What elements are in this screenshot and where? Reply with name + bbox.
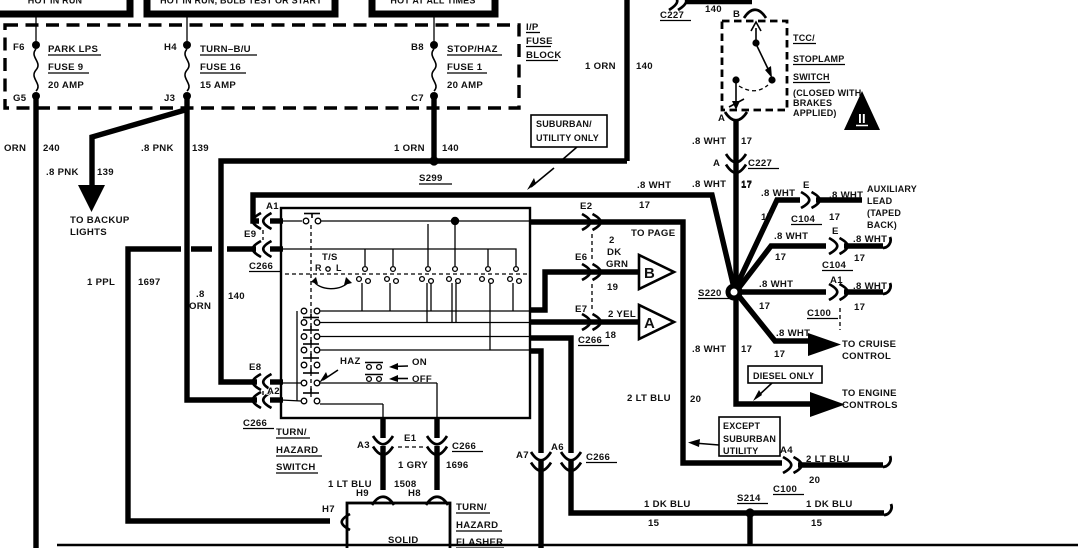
wire .8 WHT down to engine controls <box>736 297 810 404</box>
wire S214 drop <box>747 513 752 544</box>
svg-text:PARK LPS: PARK LPS <box>48 44 98 55</box>
svg-text:H7: H7 <box>322 504 335 515</box>
svg-text:1 PPL: 1 PPL <box>87 277 115 288</box>
svg-text:.8 PNK: .8 PNK <box>46 167 79 178</box>
svg-text:15: 15 <box>648 518 660 529</box>
svg-text:UTILITY ONLY: UTILITY ONLY <box>536 133 599 143</box>
svg-text:ON: ON <box>412 357 427 368</box>
wire stub into fuse B8 <box>433 14 435 42</box>
connector C100 upper <box>807 275 848 330</box>
svg-text:17: 17 <box>775 252 786 263</box>
svg-text:FUSE 9: FUSE 9 <box>48 62 83 73</box>
svg-text:LIGHTS: LIGHTS <box>70 227 107 238</box>
switch contact top <box>303 214 321 224</box>
svg-text:1697: 1697 <box>138 277 161 288</box>
HAZ label and arrow <box>319 356 361 383</box>
TCC switch travel dashed arc <box>739 85 768 91</box>
svg-text:C266: C266 <box>578 335 602 346</box>
S214 wire end hook <box>884 504 892 515</box>
svg-text:C104: C104 <box>791 214 815 225</box>
wire 1 ORN 140 from C7 to S299 <box>431 96 436 161</box>
svg-text:A: A <box>713 158 720 169</box>
svg-text:ORN: ORN <box>4 143 26 154</box>
svg-text:.8 WHT: .8 WHT <box>637 180 671 191</box>
svg-text:E8: E8 <box>249 362 262 373</box>
hazard off position icon <box>365 375 383 382</box>
svg-text:1696: 1696 <box>446 460 469 471</box>
T/S rotary label <box>315 252 342 273</box>
wire .8 PNK 139 from J3 down to A2 <box>187 96 257 400</box>
turn/hazard switch label <box>276 427 322 473</box>
wire E7 2 YEL <box>530 319 638 324</box>
TCC switch internal arrow up <box>751 22 761 42</box>
svg-text:SWITCH: SWITCH <box>276 462 316 473</box>
connector C104 lower <box>822 226 853 271</box>
svg-text:140: 140 <box>705 4 722 15</box>
svg-text:II: II <box>858 111 866 126</box>
svg-text:E: E <box>832 226 839 237</box>
connector E2 <box>580 201 601 230</box>
svg-text:B: B <box>733 9 740 20</box>
SUBURBAN/UTILITY ONLY note box <box>531 115 607 147</box>
dashed link E2-E6 <box>591 234 593 261</box>
power feed box 1 (cut off at top) <box>0 0 130 14</box>
turn/hazard flasher box <box>347 503 450 548</box>
linkage dashed vertical <box>310 225 312 397</box>
wire branch to backup lights <box>92 110 185 188</box>
hazard on position icon <box>365 363 383 370</box>
svg-text:HOT IN RUN: HOT IN RUN <box>28 0 83 6</box>
svg-text:.8 WHT: .8 WHT <box>692 344 726 355</box>
svg-text:(TAPED: (TAPED <box>867 208 901 218</box>
diesel only note box <box>748 366 822 383</box>
svg-text:F6: F6 <box>13 42 25 53</box>
wire ORN 240 from G5 down <box>33 96 38 548</box>
svg-text:UTILITY: UTILITY <box>723 446 758 456</box>
svg-text:FLASHER: FLASHER <box>456 537 503 548</box>
svg-text:TURN/: TURN/ <box>456 502 487 513</box>
svg-text:.8 WHT: .8 WHT <box>692 136 726 147</box>
svg-text:SUBURBAN/: SUBURBAN/ <box>536 119 592 129</box>
svg-text:I/P: I/P <box>526 22 539 33</box>
svg-text:15: 15 <box>811 518 823 529</box>
contact row 5 <box>301 362 320 373</box>
TCC switch label <box>793 33 861 118</box>
svg-text:A6: A6 <box>551 442 564 453</box>
svg-text:17: 17 <box>774 349 785 360</box>
TCC switch internal arrow down <box>729 83 744 110</box>
svg-text:H9: H9 <box>356 488 369 499</box>
connector A6 <box>551 442 581 471</box>
svg-text:17: 17 <box>741 344 752 355</box>
dashed link E6-E7 <box>591 284 593 311</box>
svg-text:.8 WHT: .8 WHT <box>776 328 810 339</box>
splice S220 <box>698 286 740 299</box>
svg-text:1 DK BLU: 1 DK BLU <box>806 499 853 510</box>
svg-text:FUSE 1: FUSE 1 <box>447 62 483 73</box>
svg-text:BLOCK: BLOCK <box>526 50 562 61</box>
wire A6 to S214 (1 DK BLU) <box>530 338 571 453</box>
connector A7 <box>516 450 617 471</box>
svg-text:17: 17 <box>829 212 840 223</box>
leader arrow to .8 WHT wire <box>527 168 554 190</box>
svg-text:(CLOSED WITH: (CLOSED WITH <box>793 88 861 98</box>
svg-text:A3: A3 <box>357 440 370 451</box>
turn/hazard switch box <box>281 208 530 418</box>
wire .8 WHT branch 2 <box>738 246 826 289</box>
svg-text:C266: C266 <box>243 418 267 429</box>
connector E1 dashes <box>398 433 424 447</box>
wire .8 WHT to auxiliary lead <box>736 200 800 287</box>
terminal H7 <box>322 504 350 530</box>
svg-text:1 ORN: 1 ORN <box>394 143 425 154</box>
svg-text:AUXILIARY: AUXILIARY <box>867 184 917 194</box>
svg-text:19: 19 <box>607 282 618 293</box>
svg-text:1 GRY: 1 GRY <box>398 460 428 471</box>
contact cluster 5 <box>480 249 494 350</box>
dashed link A1-E9 <box>262 230 264 240</box>
svg-text:E: E <box>803 180 810 191</box>
svg-text:1 ORN: 1 ORN <box>585 61 616 72</box>
fuse 16 TURN-B/U 15A <box>164 41 257 104</box>
svg-text:20 AMP: 20 AMP <box>447 80 483 91</box>
svg-text:E1: E1 <box>404 433 417 444</box>
svg-text:J3: J3 <box>164 93 175 104</box>
wire 2 LT BLU to right <box>798 462 883 467</box>
wire E2 to A4 (2 LT BLU) <box>530 222 782 463</box>
svg-text:DIESEL ONLY: DIESEL ONLY <box>753 371 814 381</box>
svg-text:SWITCH: SWITCH <box>793 72 830 82</box>
leader arrow from diesel only box <box>753 383 772 401</box>
svg-text:C100: C100 <box>773 484 797 495</box>
contact row 4 <box>301 347 320 358</box>
wire .8 WHT 17 from TCC to S220 <box>733 121 738 286</box>
svg-text:240: 240 <box>43 143 60 154</box>
TCC/stoplamp switch dashed box <box>722 21 787 110</box>
contact row 6 hazard feed <box>281 380 437 419</box>
svg-text:.8: .8 <box>196 289 205 300</box>
contact row 1 <box>301 308 320 317</box>
svg-text:A2: A2 <box>267 386 280 397</box>
TCC switch contact dot upper <box>752 39 759 46</box>
svg-text:E9: E9 <box>244 229 256 240</box>
contact cluster 1 <box>357 249 371 311</box>
wire A7 down <box>530 351 541 453</box>
svg-text:HAZ: HAZ <box>340 356 361 367</box>
left contact column rail <box>296 311 298 401</box>
svg-text:20: 20 <box>690 394 701 405</box>
svg-text:FUSE 16: FUSE 16 <box>200 62 241 73</box>
svg-text:L: L <box>336 263 342 273</box>
junction node <box>451 217 459 225</box>
svg-text:SUBURBAN: SUBURBAN <box>723 434 776 444</box>
svg-text:B8: B8 <box>411 42 424 53</box>
svg-text:TURN–B/U: TURN–B/U <box>200 44 251 55</box>
svg-text:140: 140 <box>636 61 653 72</box>
power feed box 2 (cut off at top) <box>147 0 335 14</box>
wire .8 WHT from A1 along top to S220 <box>253 195 734 288</box>
wire E6 2 DK GRN <box>530 272 638 310</box>
connector C227 lower <box>713 154 779 173</box>
wire 1 PPL 1697 from E9 to H7 <box>128 249 330 521</box>
connector E9 at C266 <box>244 229 283 272</box>
connector C104 upper <box>791 180 822 225</box>
svg-text:TO BACKUP: TO BACKUP <box>70 215 130 226</box>
turn/hazard flasher label <box>456 502 504 548</box>
svg-text:H8: H8 <box>408 488 421 499</box>
svg-text:HAZARD: HAZARD <box>276 445 318 456</box>
svg-text:E7: E7 <box>575 304 587 315</box>
svg-text:17: 17 <box>759 301 770 312</box>
svg-text:DK: DK <box>607 247 621 258</box>
connector E7 <box>575 304 609 346</box>
svg-text:2 YEL: 2 YEL <box>608 309 636 320</box>
connector C266 on E1 wire <box>427 436 483 455</box>
warning triangle symbol <box>844 91 880 130</box>
terminal H9 <box>356 488 394 505</box>
wire S299 bus and drop to E8 <box>221 161 627 382</box>
svg-text:20 AMP: 20 AMP <box>48 80 84 91</box>
svg-text:C266: C266 <box>249 261 273 272</box>
terminal H8 <box>408 488 448 505</box>
except suburban utility note box <box>719 417 780 456</box>
terminal B <box>733 9 766 20</box>
contact row 2 <box>301 320 320 330</box>
svg-text:CONTROL: CONTROL <box>842 351 891 362</box>
svg-text:CONTROLS: CONTROLS <box>842 400 898 411</box>
I/P fuse block label <box>526 22 562 61</box>
svg-text:C104: C104 <box>822 260 846 271</box>
svg-text:TCC/: TCC/ <box>793 33 815 43</box>
internal bus wires to right edge <box>320 311 530 350</box>
svg-text:TURN/: TURN/ <box>276 427 307 438</box>
page divider line <box>57 544 1078 546</box>
svg-text:A4: A4 <box>780 445 793 456</box>
svg-text:TO ENGINE: TO ENGINE <box>842 388 897 399</box>
wire .8 WHT to cruise control <box>738 295 808 341</box>
svg-text:EXCEPT: EXCEPT <box>723 421 761 431</box>
svg-text:.8 WHT: .8 WHT <box>853 234 887 245</box>
svg-text:C266: C266 <box>452 441 476 452</box>
connector C227 top <box>660 0 691 21</box>
contact row 3 <box>301 334 320 344</box>
svg-text:BRAKES: BRAKES <box>793 98 832 108</box>
wire at top to TCC switch <box>686 0 752 4</box>
dashed link E8-A2 <box>262 391 264 398</box>
wire .8 WHT branch 3 <box>741 289 826 294</box>
svg-text:S214: S214 <box>737 493 761 504</box>
leader from note box to S299 wire <box>562 147 577 160</box>
svg-text:APPLIED): APPLIED) <box>793 108 837 118</box>
svg-text:17: 17 <box>741 136 752 147</box>
wire stub into fuse H4 <box>186 14 188 42</box>
off-page triangle B <box>639 255 674 289</box>
svg-text:17: 17 <box>741 180 752 191</box>
power feed box 3 (cut off at top) <box>372 0 495 14</box>
I/P fuse block dashed box <box>5 25 519 108</box>
svg-text:C266: C266 <box>586 452 610 463</box>
off-page triangle A <box>639 305 674 339</box>
contact cluster 3 <box>420 224 434 322</box>
svg-text:S220: S220 <box>698 288 722 299</box>
internal wire E9 line <box>281 249 516 267</box>
svg-text:17: 17 <box>854 253 865 264</box>
connector C100 lower A4 <box>773 445 804 495</box>
connector E8 at C266 <box>249 362 283 390</box>
connector A3 <box>357 436 393 455</box>
svg-text:A1: A1 <box>266 201 279 212</box>
svg-text:2 LT BLU: 2 LT BLU <box>806 454 850 465</box>
svg-text:TO PAGE: TO PAGE <box>631 228 676 239</box>
connector A1 at C266 <box>253 201 283 229</box>
svg-text:.8 WHT: .8 WHT <box>761 188 795 199</box>
T/S direction arc arrow <box>311 277 352 289</box>
svg-text:C227: C227 <box>748 158 772 169</box>
terminal A <box>718 112 747 124</box>
svg-text:C227: C227 <box>660 10 684 21</box>
svg-text:C100: C100 <box>807 308 831 319</box>
svg-text:.8 WHT: .8 WHT <box>853 281 887 292</box>
svg-text:E2: E2 <box>580 201 592 212</box>
connector E6 <box>575 252 601 280</box>
svg-text:OFF: OFF <box>412 374 432 385</box>
svg-text:15 AMP: 15 AMP <box>200 80 236 91</box>
linkage dashed horizontal <box>285 273 527 275</box>
svg-text:.8 WHT: .8 WHT <box>829 190 863 201</box>
svg-text:R: R <box>315 263 322 273</box>
ON label arrow <box>389 357 427 370</box>
wire E1 1 GRY 1696 <box>434 419 439 438</box>
svg-text:HOT IN RUN, BULB TEST OR START: HOT IN RUN, BULB TEST OR START <box>160 0 322 6</box>
svg-text:1 DK BLU: 1 DK BLU <box>644 499 691 510</box>
svg-text:A: A <box>718 113 725 124</box>
svg-text:FUSE: FUSE <box>526 36 553 47</box>
svg-text:17: 17 <box>854 302 865 313</box>
wire stub into fuse F6 <box>35 14 37 42</box>
svg-text:S299: S299 <box>419 173 443 184</box>
svg-text:2: 2 <box>609 235 615 246</box>
svg-text:2 LT BLU: 2 LT BLU <box>627 393 671 404</box>
wire A3 1 LT BLU 1508 <box>380 419 385 438</box>
svg-text:GRN: GRN <box>606 259 628 270</box>
fuse 9 PARK LPS 20A <box>13 41 101 104</box>
TCC switch contact dot left <box>732 76 739 83</box>
svg-text:.8 WHT: .8 WHT <box>759 279 793 290</box>
svg-text:H4: H4 <box>164 42 177 53</box>
splice S299 <box>419 156 452 184</box>
svg-text:STOPLAMP: STOPLAMP <box>793 54 844 64</box>
contact cluster 2 <box>385 249 399 311</box>
svg-text:.8 WHT: .8 WHT <box>692 179 726 190</box>
TCC switch contact dot right <box>768 76 775 83</box>
splice S214 <box>737 493 768 518</box>
svg-text:TO CRUISE: TO CRUISE <box>842 339 896 350</box>
svg-text:.8 PNK: .8 PNK <box>141 143 174 154</box>
fuse 1 STOP/HAZ 20A <box>411 41 502 104</box>
contact cluster 6 <box>508 267 522 311</box>
svg-text:18: 18 <box>605 330 617 341</box>
svg-text:139: 139 <box>192 143 209 154</box>
svg-text:STOP/HAZ: STOP/HAZ <box>447 44 498 55</box>
svg-text:BACK): BACK) <box>867 220 897 230</box>
svg-text:C7: C7 <box>411 93 424 104</box>
svg-text:17: 17 <box>639 200 650 211</box>
internal wire A1 line <box>281 220 530 222</box>
TCC switch blade <box>757 46 772 78</box>
wire 1 ORN 140 vertical at top <box>624 0 629 161</box>
svg-text:.8 WHT: .8 WHT <box>774 231 808 242</box>
contact cluster 4 <box>447 225 461 322</box>
svg-text:ORN: ORN <box>189 301 211 312</box>
svg-text:140: 140 <box>228 291 245 302</box>
svg-text:B: B <box>644 265 655 282</box>
svg-text:G5: G5 <box>13 93 27 104</box>
svg-text:E6: E6 <box>575 252 587 263</box>
svg-text:T/S: T/S <box>322 252 338 263</box>
svg-text:20: 20 <box>809 475 820 486</box>
svg-text:17: 17 <box>761 212 772 223</box>
svg-text:A7: A7 <box>516 450 529 461</box>
svg-text:139: 139 <box>97 167 114 178</box>
svg-text:140: 140 <box>442 143 459 154</box>
OFF label arrow <box>389 374 432 385</box>
auxiliary lead label <box>867 184 917 230</box>
connector A2 at C266 <box>243 386 283 429</box>
svg-text:LEAD: LEAD <box>867 196 893 206</box>
contact row 7 bottom <box>281 398 383 419</box>
leader arrow from except box <box>688 439 719 447</box>
svg-text:A: A <box>644 315 655 332</box>
svg-text:HAZARD: HAZARD <box>456 520 498 531</box>
svg-text:HOT AT ALL TIMES: HOT AT ALL TIMES <box>390 0 475 6</box>
